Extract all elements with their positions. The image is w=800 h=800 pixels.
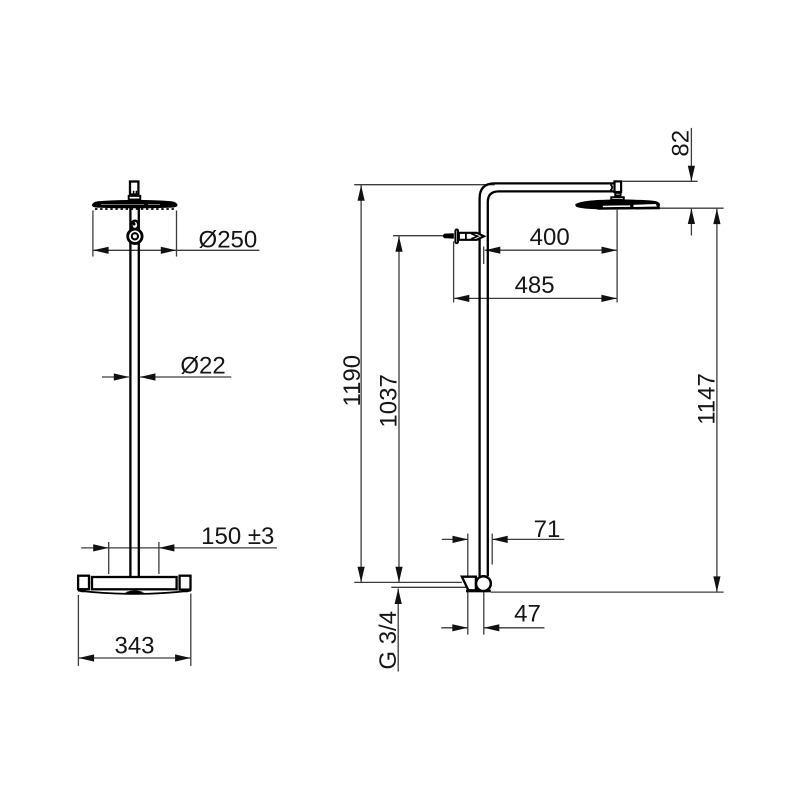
dimension line 82 upper — [690, 128, 692, 181]
small diverter ellipse — [132, 221, 139, 230]
riser pipe + arm outer line — [480, 183, 615, 576]
arrow 150 left — [93, 544, 109, 551]
dimension line 150±3 — [81, 547, 277, 549]
dimension line 1190 — [360, 185, 362, 582]
bottom reference line left — [354, 581, 462, 583]
svg-text:Ø22: Ø22 — [180, 353, 225, 380]
arm end cap — [611, 185, 613, 191]
shower head (side, black lens) — [575, 200, 660, 210]
dimension line 82 lower — [690, 208, 692, 235]
svg-text:71: 71 — [534, 516, 561, 543]
outlet body with chevron — [459, 233, 484, 240]
nozzle serration — [95, 208, 176, 210]
arrow 1037 bottom — [395, 567, 402, 583]
arrow 82 up — [688, 209, 695, 225]
arrow 71 left — [453, 536, 469, 543]
svg-text:1147: 1147 — [693, 373, 720, 425]
shower head disk (front) — [92, 200, 178, 208]
arrow 1037 top — [395, 236, 402, 252]
arrow 485 right — [601, 295, 617, 302]
svg-text:1037: 1037 — [375, 374, 402, 427]
svg-text:400: 400 — [530, 224, 570, 251]
svg-text:343: 343 — [114, 633, 154, 660]
riser pipe + arm inner line — [488, 191, 614, 576]
body bottom curve — [78, 591, 191, 594]
outlet body divider — [465, 233, 467, 240]
arrow 400 right — [602, 247, 618, 254]
arrow 150 right — [159, 544, 175, 551]
arrow 400 left — [485, 247, 501, 254]
dimension line Ø22 right tail — [140, 376, 231, 378]
holder ring — [128, 229, 142, 243]
holder inner circle — [132, 233, 138, 239]
svg-text:47: 47 — [514, 601, 541, 628]
bottom reference line right — [491, 591, 724, 593]
svg-text:82: 82 — [668, 130, 695, 157]
head highlight — [101, 203, 160, 205]
head connector flange — [611, 197, 624, 200]
extension lines 150±3 — [108, 542, 110, 574]
arrow 1190 top — [358, 185, 365, 201]
wall bracket trapezoid — [462, 577, 476, 591]
faucet body — [92, 577, 177, 589]
arrow 485 left — [454, 295, 470, 302]
faucet right cap — [180, 576, 191, 590]
svg-text:1190: 1190 — [339, 355, 366, 407]
arrow Ø22 left — [114, 373, 130, 380]
extension lines 343 — [77, 595, 79, 666]
head connector nut — [615, 193, 620, 196]
svg-text:G 3/4: G 3/4 — [375, 611, 402, 670]
arrow 47 left — [452, 624, 468, 631]
arrow Ø22 right — [140, 373, 156, 380]
faucet left cap — [78, 576, 89, 590]
top reference line (connector top, right) — [622, 180, 697, 182]
400/485 right extension — [616, 210, 618, 303]
G3/4 leader line — [397, 589, 399, 672]
arrow 1147 top — [713, 209, 720, 225]
dimension line Ø250 — [93, 249, 260, 251]
head rim white band — [602, 205, 631, 208]
dimension line 400 — [485, 249, 617, 251]
inlet elbow circle — [476, 576, 491, 591]
top connector — [130, 182, 138, 195]
arrow 343 right — [175, 654, 191, 661]
top reference line (arm top, left) — [354, 184, 495, 186]
left inlet dot — [80, 589, 87, 592]
400 left extension — [483, 247, 485, 265]
dimension line 343 — [78, 657, 190, 659]
connector ticks — [134, 191, 137, 194]
G3/4 reference line — [391, 586, 466, 588]
arrow 1190 bottom — [358, 567, 365, 583]
arrow 1147 bottom — [713, 576, 720, 592]
47 right extension — [483, 593, 485, 635]
dimension line 1037 — [398, 236, 400, 582]
right inlet dot — [183, 589, 190, 592]
head rim white band right — [633, 204, 658, 208]
1037 extension line — [393, 235, 442, 237]
connector nut — [129, 196, 141, 200]
arrow 82 down — [688, 166, 695, 182]
dimension line 1147 — [716, 209, 718, 592]
arrow Ø250 right — [161, 247, 177, 254]
485 left extension — [453, 242, 455, 303]
hand shower outlet tip (black) — [442, 233, 454, 238]
dimension line 71 — [442, 538, 565, 540]
riser pipe (front) — [130, 206, 138, 577]
dimension line 47 — [441, 627, 544, 629]
dimension line 485 — [454, 297, 617, 299]
extension line right of head (Ø250) — [176, 211, 178, 257]
arrow 47 right — [484, 624, 500, 631]
extension line left of head (Ø250) — [92, 211, 94, 257]
wall bracket dark base — [466, 590, 491, 593]
svg-text:Ø250: Ø250 — [199, 227, 258, 254]
arrow 343 left — [79, 654, 95, 661]
outlet flange — [455, 230, 458, 244]
head connector vertical — [615, 181, 622, 192]
head bottom reference line — [660, 207, 724, 209]
arrow Ø250 left — [93, 247, 109, 254]
svg-text:150 ±3: 150 ±3 — [201, 523, 274, 550]
dimension line Ø22 left tail — [102, 376, 129, 378]
arrow G3/4 up — [395, 589, 402, 605]
outlet inner chevron — [471, 234, 477, 239]
71/47 left extension — [467, 534, 469, 635]
diverter dot — [132, 221, 136, 226]
71 right extension — [491, 534, 493, 565]
handle blob — [125, 591, 144, 594]
svg-text:485: 485 — [515, 272, 555, 299]
head bottom bar — [597, 207, 660, 210]
arrow 71 right — [492, 536, 508, 543]
